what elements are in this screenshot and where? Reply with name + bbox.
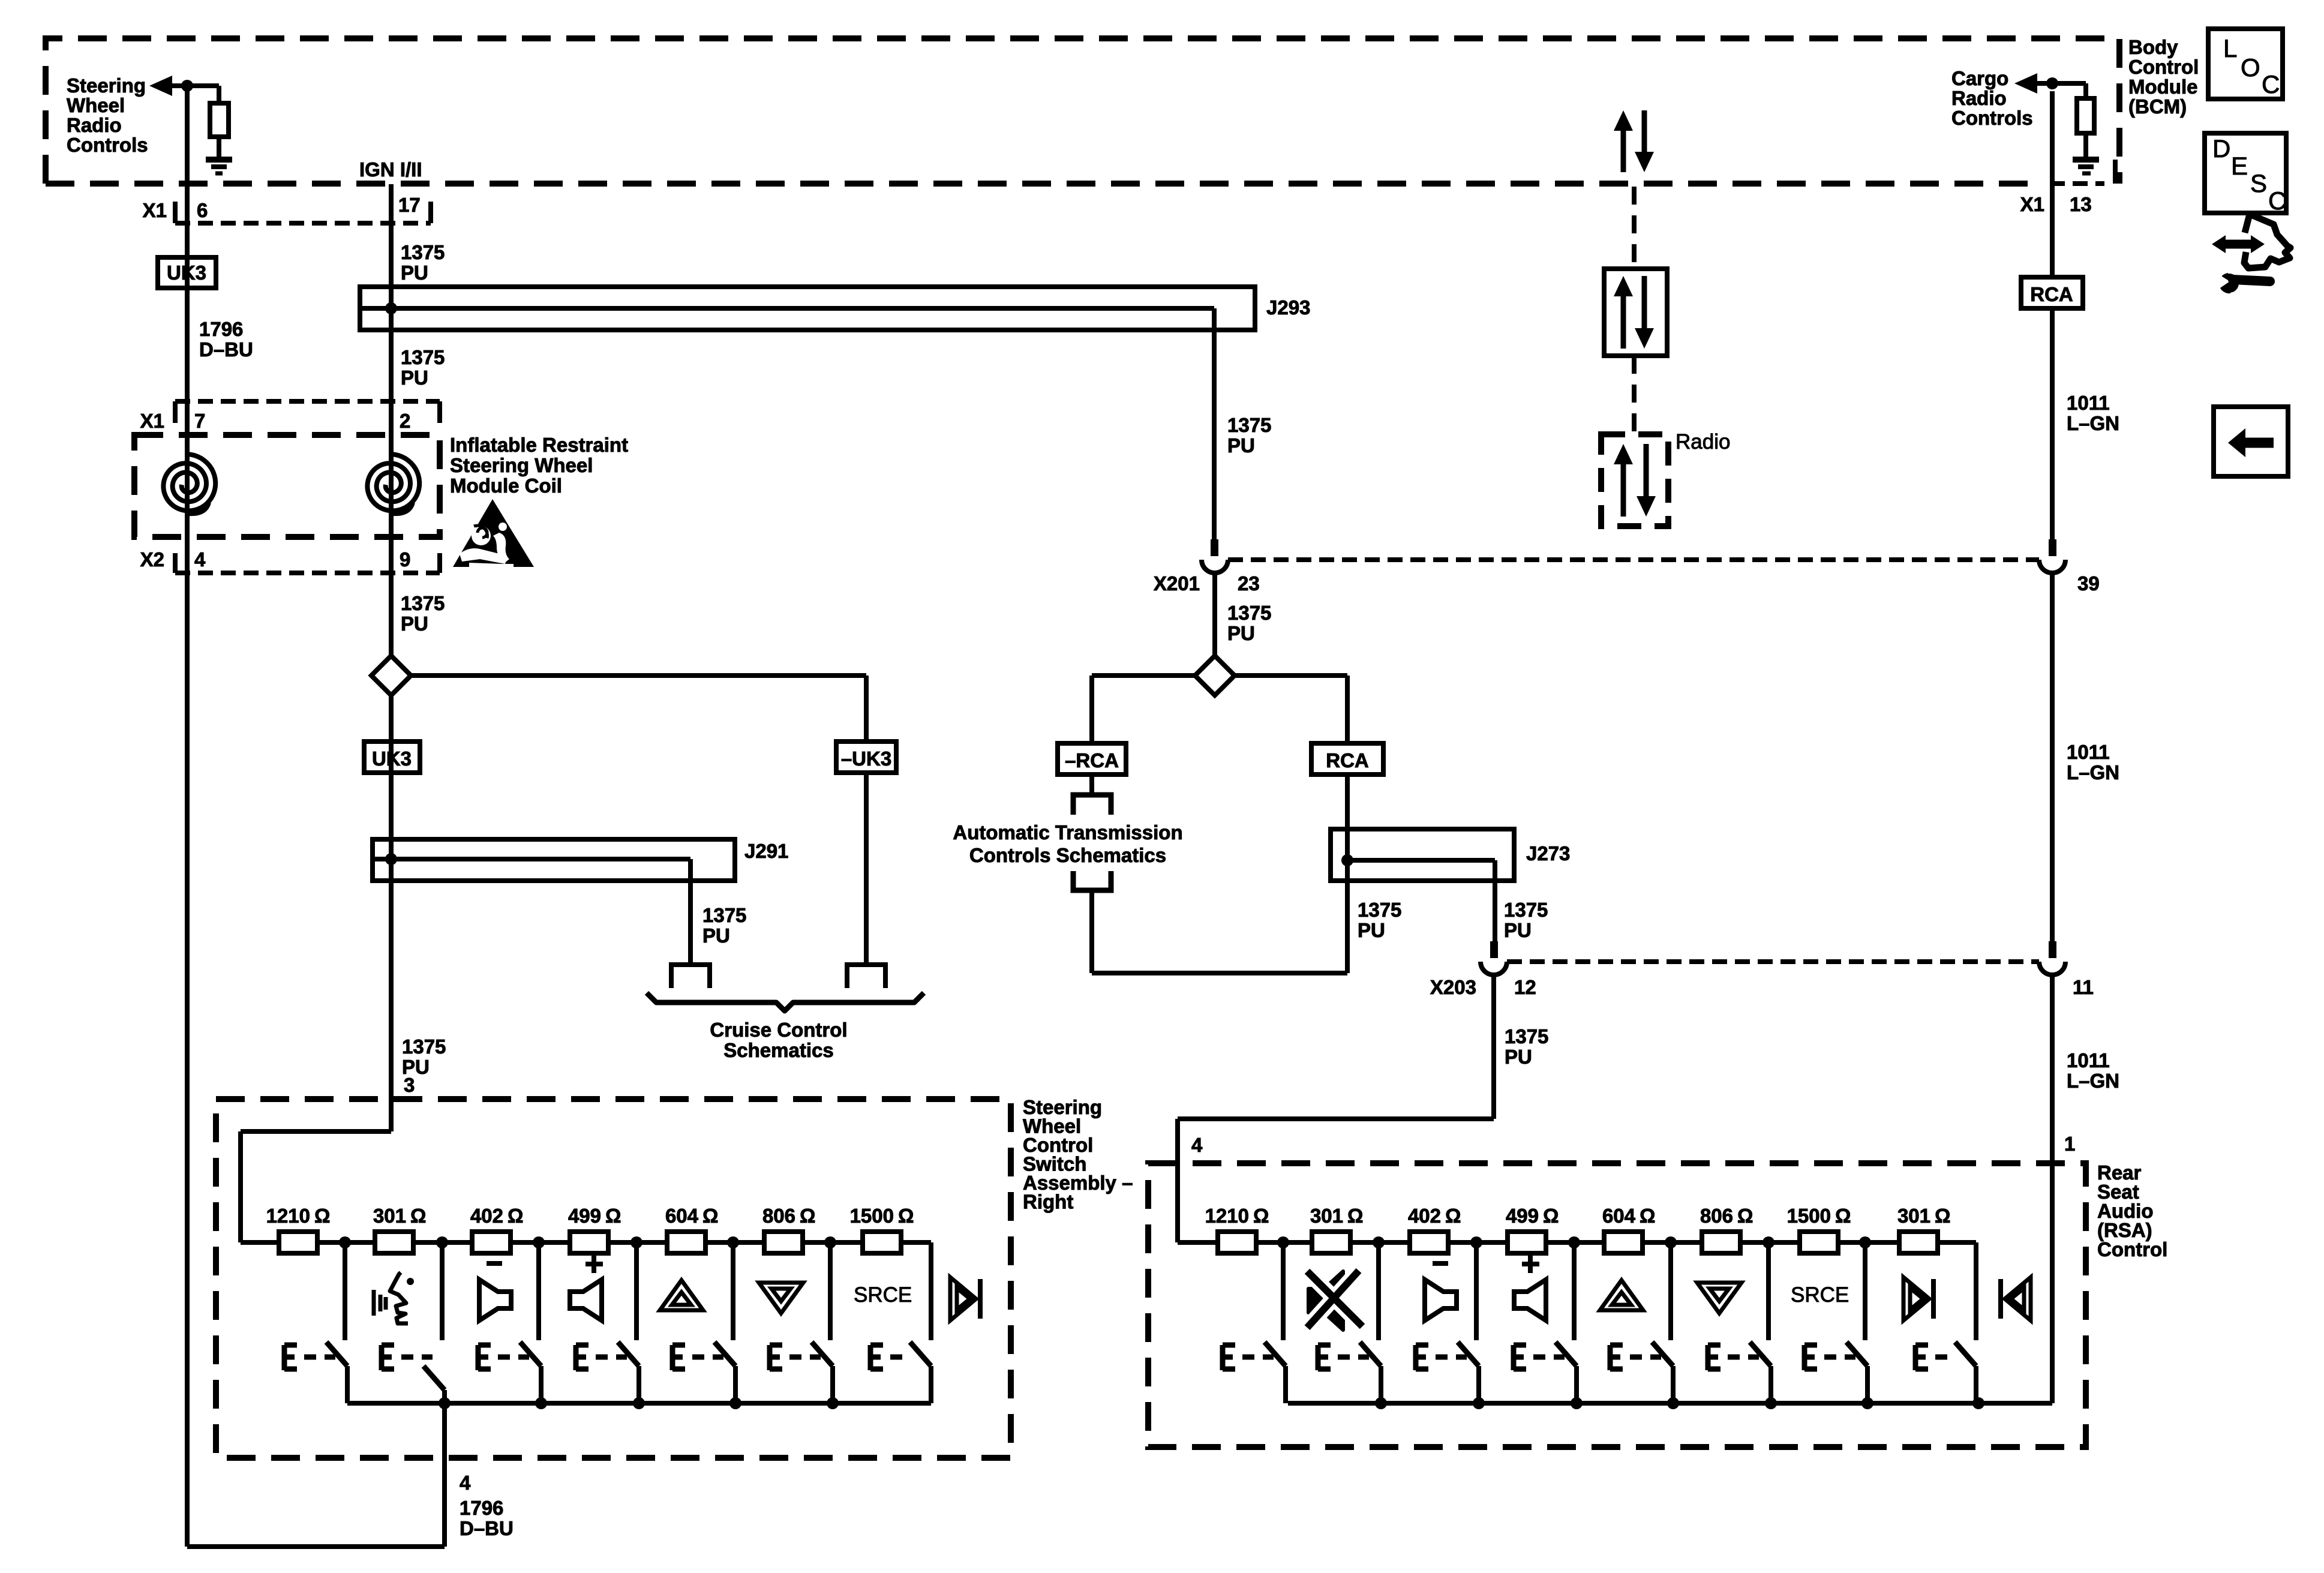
svg-text:Module: Module [2128,76,2197,98]
svg-text:Inflatable Restraint: Inflatable Restraint [450,434,628,456]
svg-text:499: 499 [568,1205,601,1227]
svg-text:4: 4 [194,548,206,571]
svg-text:RCA: RCA [1326,749,1369,772]
svg-text:1: 1 [2064,1133,2075,1155]
svg-text:RCA: RCA [2030,283,2073,305]
svg-text:C: C [2268,187,2286,215]
svg-text:1011: 1011 [2067,741,2110,763]
svg-text:1375: 1375 [1227,602,1271,624]
svg-text:1796: 1796 [199,318,243,340]
svg-text:L: L [2223,34,2237,62]
svg-text:–RCA: –RCA [1065,749,1119,772]
svg-text:6: 6 [197,199,208,221]
svg-text:Controls: Controls [67,134,148,156]
svg-text:7: 7 [194,410,205,432]
svg-text:PU: PU [1227,434,1255,457]
svg-text:PU: PU [1227,622,1255,644]
svg-text:1375: 1375 [1227,414,1271,436]
svg-text:39: 39 [2077,572,2100,595]
svg-text:SRCE: SRCE [854,1283,912,1307]
svg-text:PU: PU [702,924,730,947]
svg-text:402: 402 [470,1205,503,1227]
svg-text:Body: Body [2128,36,2178,58]
svg-text:UK3: UK3 [372,748,412,770]
svg-text:X201: X201 [1154,572,1200,595]
svg-text:Cruise Control: Cruise Control [710,1019,847,1041]
svg-text:1375: 1375 [401,592,445,614]
svg-text:1375: 1375 [1505,1025,1548,1047]
svg-text:X1: X1 [143,199,167,221]
svg-text:D–BU: D–BU [199,338,253,361]
svg-text:9: 9 [400,548,410,571]
svg-text:11: 11 [2073,976,2094,998]
svg-text:PU: PU [401,613,428,635]
svg-text:4: 4 [460,1472,471,1494]
svg-text:Ω: Ω [1835,1205,1851,1227]
svg-text:2: 2 [400,410,410,432]
svg-text:1796: 1796 [460,1497,503,1519]
svg-text:Right: Right [1023,1191,1073,1213]
svg-text:499: 499 [1506,1205,1539,1227]
svg-text:D–BU: D–BU [460,1517,514,1539]
svg-text:Control: Control [2128,56,2199,78]
svg-text:23: 23 [1238,572,1260,595]
svg-text:1500: 1500 [1787,1205,1831,1227]
svg-text:Ω: Ω [1445,1205,1461,1227]
svg-text:3: 3 [404,1074,415,1096]
svg-text:Steering Wheel: Steering Wheel [450,454,593,476]
svg-text:Controls: Controls [1951,107,2033,129]
svg-text:PU: PU [401,262,428,284]
svg-text:Schematics: Schematics [723,1039,833,1061]
svg-text:604: 604 [665,1205,699,1227]
svg-text:1011: 1011 [2067,1049,2110,1071]
svg-text:806: 806 [762,1205,795,1227]
svg-text:Ω: Ω [800,1205,815,1227]
svg-text:806: 806 [1700,1205,1733,1227]
svg-text:1500: 1500 [850,1205,894,1227]
svg-text:S: S [2250,169,2267,197]
svg-text:1375: 1375 [401,346,445,368]
svg-text:Radio: Radio [1951,87,2007,109]
svg-text:IGN I/II: IGN I/II [359,158,422,181]
svg-text:L–GN: L–GN [2067,1070,2119,1092]
svg-text:604: 604 [1602,1205,1636,1227]
svg-text:Automatic Transmission: Automatic Transmission [953,821,1182,843]
svg-text:C: C [2262,70,2280,98]
svg-text:PU: PU [1504,919,1532,941]
svg-text:301: 301 [1897,1205,1930,1227]
svg-text:Ω: Ω [702,1205,718,1227]
svg-text:1375: 1375 [702,904,746,926]
svg-text:PU: PU [401,367,428,389]
svg-text:Ω: Ω [605,1205,621,1227]
svg-text:Ω: Ω [1935,1205,1950,1227]
svg-text:E: E [2231,152,2248,180]
svg-text:L–GN: L–GN [2067,412,2119,434]
svg-text:Ω: Ω [1543,1205,1559,1227]
svg-text:Radio: Radio [1676,430,1730,454]
svg-text:PU: PU [1358,919,1385,941]
svg-text:Ω: Ω [1253,1205,1269,1227]
svg-text:X1: X1 [2020,193,2044,215]
svg-text:O: O [2241,53,2260,82]
svg-text:Ω: Ω [314,1205,330,1227]
svg-text:X2: X2 [140,548,164,571]
svg-text:Controls Schematics: Controls Schematics [969,844,1166,866]
svg-text:12: 12 [1514,976,1536,998]
svg-text:Ω: Ω [1640,1205,1655,1227]
svg-text:Steering: Steering [67,74,146,97]
svg-text:Ω: Ω [1737,1205,1753,1227]
svg-text:–UK3: –UK3 [841,748,891,770]
svg-text:402: 402 [1408,1205,1441,1227]
svg-text:1375: 1375 [1358,899,1401,921]
svg-text:X1: X1 [140,410,164,432]
svg-text:D: D [2212,134,2230,163]
svg-text:17: 17 [398,194,421,216]
svg-text:13: 13 [2070,193,2092,215]
svg-text:Radio: Radio [67,114,122,136]
svg-text:301: 301 [373,1205,406,1227]
svg-text:301: 301 [1310,1205,1343,1227]
svg-text:1375: 1375 [401,241,445,263]
svg-text:Wheel: Wheel [67,94,125,116]
svg-text:1011: 1011 [2067,392,2110,414]
svg-text:J293: J293 [1266,296,1310,319]
svg-text:J291: J291 [744,840,788,862]
svg-text:Ω: Ω [410,1205,426,1227]
svg-text:1210: 1210 [266,1205,310,1227]
svg-text:Ω: Ω [898,1205,914,1227]
svg-text:1210: 1210 [1205,1205,1249,1227]
svg-text:4: 4 [1191,1134,1203,1156]
svg-text:X203: X203 [1430,976,1476,998]
svg-text:SRCE: SRCE [1791,1283,1849,1307]
svg-text:Module Coil: Module Coil [450,475,562,497]
svg-text:(BCM): (BCM) [2128,95,2187,118]
svg-text:1375: 1375 [1504,899,1548,921]
svg-text:1375: 1375 [402,1035,446,1058]
svg-text:Ω: Ω [1347,1205,1363,1227]
svg-text:Cargo: Cargo [1951,67,2008,89]
svg-text:Control: Control [2097,1238,2167,1260]
svg-text:J273: J273 [1526,842,1570,864]
svg-text:Ω: Ω [508,1205,523,1227]
svg-text:L–GN: L–GN [2067,761,2119,784]
svg-text:PU: PU [1505,1046,1532,1068]
